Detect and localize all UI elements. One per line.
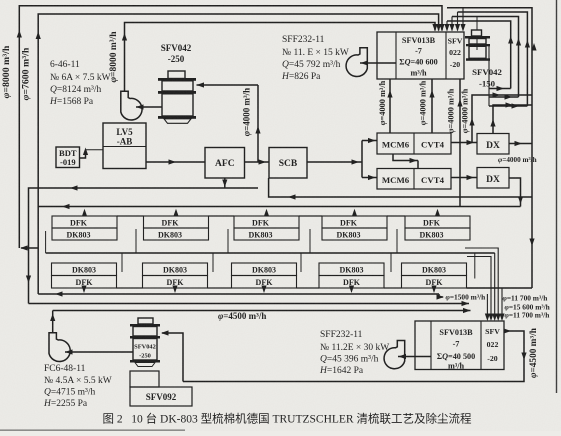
- wire row1 interconnect drops: [135, 229, 137, 253]
- wire top bus line 2 from 7600 riser into filter unit: [38, 14, 438, 294]
- wire row2 bottom rail gap segments: [117, 287, 143, 289]
- wire filter unit riser long: [459, 79, 461, 207]
- wire inter-row suction duct B: [46, 252, 495, 254]
- wire SFV042-150 stair outlet 2: [489, 96, 519, 98]
- wire top bus line 3 from top fan riser into filter unit: [125, 23, 436, 92]
- machine DFK/DK803 unit 4 row1: [322, 216, 387, 228]
- box AFC: [205, 148, 245, 179]
- wire right nest return R3: [452, 17, 519, 98]
- wire row1 top rail gap segments: [117, 215, 144, 217]
- wire right nest return R2: [458, 12, 528, 106]
- box filter unit SFV013B-7 top: [377, 32, 464, 79]
- wire B rail upper branch: [465, 248, 498, 319]
- wire stub from rows into left riser: [21, 247, 38, 249]
- wire bus D: [29, 303, 470, 305]
- bottom scan edge artifact: [0, 429, 185, 431]
- wire fan into filter unit: [360, 62, 396, 64]
- machine DK803/DFK unit 3 row2: [232, 263, 297, 276]
- wire CVT4 row1 to DX1: [451, 142, 477, 144]
- box SFV092 lower: [130, 387, 192, 406]
- box filter unit SFV013B-7 bottom: [415, 321, 504, 370]
- machine SFV042-150 condenser: [476, 17, 478, 31]
- wire machine outlet to fan: [65, 351, 133, 353]
- wire BDT to LV5: [80, 151, 86, 159]
- wire inlet into bottom SFV042 from outlet loop: [162, 333, 183, 382]
- fan SFF232-11 top blower: [346, 48, 367, 77]
- wire row1 to row2 jog: [393, 154, 418, 161]
- wire DX1 right outlet: [509, 143, 532, 145]
- machine DK803/DFK unit 1 row2: [52, 263, 117, 276]
- wire drops to row2: [121, 253, 123, 272]
- wire top bus line 1 from left riser into filter unit: [19, 6, 442, 248]
- fan 6-46-11 blower: [121, 91, 142, 120]
- wire bottom unit outlet loop: [183, 331, 524, 382]
- box DX1: [477, 134, 509, 155]
- wire DX2 right outlet down to suction line: [509, 178, 521, 207]
- wire bus C row2 discharge: [38, 293, 439, 295]
- machine DK803/DFK unit 2 row2: [143, 263, 208, 276]
- wire right nest return R1 long collector: [447, 8, 532, 288]
- machine DK803/DFK unit 5 row2: [402, 263, 467, 276]
- machine DK803/DFK unit 4 row2: [319, 263, 384, 276]
- wire SFV042-150 stair outlet 1: [489, 88, 511, 90]
- box DX2: [477, 168, 509, 189]
- node flow arrows on left risers: [17, 30, 22, 38]
- wire fan riser to 4500 duct: [52, 311, 54, 333]
- wire B rail lower branch: [467, 257, 491, 320]
- wire riser corner to right bundle: [472, 95, 532, 143]
- wire row2 rail extension to collector: [467, 287, 533, 289]
- wire filter unit riser from MCM6: [389, 79, 391, 133]
- node up arrows on right riser bundle: [508, 36, 513, 44]
- wire LV5 to AFC: [146, 161, 205, 163]
- wire SFV042-150 stair outlet 3: [489, 105, 527, 107]
- wire right nest return R4: [447, 21, 511, 89]
- wire return line y188 to left riser V3: [29, 188, 259, 304]
- box SFV092 upper: [130, 371, 159, 387]
- page edge artifact: [556, 0, 558, 393]
- wire row2 unit5 side elbow: [474, 253, 476, 279]
- wire filter unit riser from CVT4: [431, 79, 433, 133]
- fan FC6-48-11 blower: [49, 333, 70, 362]
- box MCM6 CVT4 line 1: [377, 133, 451, 154]
- machine DFK/DK803 unit 5 row1: [405, 216, 470, 228]
- box LV5-AB feeder: [103, 123, 146, 169]
- wire AFC to SCB: [245, 161, 270, 163]
- box SCB: [269, 148, 307, 179]
- node down arrow on right collector: [529, 239, 534, 247]
- wire splitter to MCM6 row2: [362, 177, 377, 179]
- wire drop arrowheads into filter unit top: [432, 24, 437, 32]
- box BDT-019: [56, 147, 80, 168]
- machine DFK/DK803 unit 1 row1: [52, 216, 117, 228]
- wire fan into bottom filter unit: [398, 356, 431, 358]
- box MCM6 CVT4 line 2: [377, 169, 451, 190]
- wire CVT4 row2 to DX2: [451, 177, 477, 179]
- wire splitter arrow row1: [368, 138, 376, 143]
- wire drop from collector rail into bottom filter unit: [501, 288, 503, 319]
- wire SFV042-250 outlet to fan inlet: [136, 106, 162, 108]
- wire bus F 4500 line: [53, 310, 471, 312]
- fan SFF232-11 bottom blower: [384, 341, 405, 369]
- machine DFK/DK803 unit 3 row1: [234, 216, 299, 228]
- wire SCB to carding splitter: [307, 161, 362, 163]
- wire row1 side elbow: [45, 231, 47, 253]
- wire row1 suction duct A: [38, 206, 520, 208]
- wire SFV042-150 side header: [488, 46, 490, 106]
- wire bus C jog to 1500 label: [439, 294, 443, 297]
- wire riser 4000 m3/h down to SCB line: [257, 85, 259, 162]
- wire drop from bus C into bottom filter unit: [486, 294, 488, 319]
- wire AFC drain down to return line: [224, 178, 226, 188]
- wire inlet into SFV042-250 from riser: [197, 84, 259, 86]
- wire return line y197 from SCB bottom to DX riser: [269, 178, 532, 197]
- node drop arrowheads into bottom filter unit: [485, 314, 490, 322]
- machine DFK/DK803 unit 2 row1: [144, 216, 209, 228]
- machine SFV042-250 bottom condenser: [138, 318, 153, 324]
- wire drop from duct B into bottom filter unit: [494, 253, 496, 319]
- wire DX1 top riser to right bundle: [493, 105, 532, 134]
- wire splitter to MCM6 row1: [362, 140, 377, 142]
- machine SFV042-250 top condenser: [168, 71, 185, 79]
